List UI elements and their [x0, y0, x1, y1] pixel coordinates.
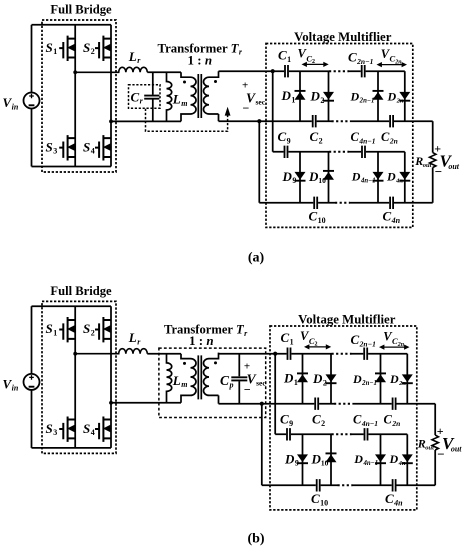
svg-text:S1: S1	[46, 40, 58, 56]
wire rail2 dotted (a)	[332, 120, 351, 122]
wire diode branch x328 top (a)	[328, 71, 330, 121]
node Vsec+ (a)	[271, 69, 275, 73]
capacitor C1 (a)	[285, 65, 288, 77]
capacitor C2 (a)	[313, 115, 316, 127]
wire rail3 (b)	[275, 433, 407, 435]
svg-text:D2n: D2n	[389, 372, 406, 387]
wire rail2 to Rout (b)	[434, 404, 436, 435]
wire diode branch x328 bottom (a)	[328, 152, 330, 203]
arrow VC2n (a)	[377, 62, 408, 67]
transistor S4 (a)	[95, 135, 111, 160]
diode D2 (a)	[323, 92, 334, 101]
capacitor C2n-1 (b)	[364, 348, 367, 360]
wire bridge left leg (a)	[74, 25, 76, 167]
svg-text:D9: D9	[282, 169, 297, 185]
transformer secondary dot (a)	[214, 80, 217, 83]
svg-text:−: −	[244, 383, 251, 397]
node bridge mid-right (b)	[109, 401, 113, 405]
transformer primary winding (b)	[181, 354, 196, 403]
svg-text:Vout: Vout	[440, 152, 460, 171]
source Vin (a)	[24, 93, 40, 109]
diode D2n-1 (a)	[373, 91, 384, 100]
voltage multiplier dashed box (a)	[266, 44, 413, 228]
wire diode branch x300 top (b)	[302, 354, 304, 404]
resistor Rout (a)	[430, 153, 436, 168]
capacitor C4n-1 (b)	[365, 428, 368, 440]
svg-text:C2n−1: C2n−1	[351, 332, 376, 348]
svg-text:VC2: VC2	[298, 47, 316, 65]
svg-text:−: −	[435, 164, 442, 179]
wire Lr to primary (a)	[147, 71, 181, 73]
diode D9 (a)	[295, 172, 306, 181]
diode D2n (a)	[399, 92, 410, 101]
capacitor Cr dashed box (a)	[129, 85, 161, 109]
svg-text:Cp: Cp	[220, 373, 234, 389]
svg-text:Rout: Rout	[417, 436, 434, 451]
svg-text:S2: S2	[83, 40, 95, 56]
svg-text:C2n: C2n	[381, 130, 398, 145]
capacitor Cr wire top (a)	[152, 72, 154, 95]
diode D2 (b)	[326, 374, 337, 383]
transformer secondary dot (b)	[214, 361, 217, 364]
wire rail1 dotted (b)	[332, 353, 352, 355]
capacitor C2n (a)	[390, 115, 393, 127]
svg-text:C1: C1	[278, 48, 291, 64]
transformer core (a)	[198, 74, 201, 118]
wire Rout to rail4 (b)	[434, 450, 436, 485]
wire diode branch x404 bottom (a)	[404, 152, 406, 203]
svg-text:C4n: C4n	[385, 491, 403, 507]
svg-text:C4n−1: C4n−1	[351, 130, 376, 145]
capacitor C10 (a)	[314, 197, 317, 209]
diode D4n (b)	[402, 454, 413, 463]
wire bridge left leg (b)	[74, 306, 76, 448]
svg-text:Full Bridge: Full Bridge	[50, 284, 112, 298]
voltage multiplier dashed box (b)	[270, 326, 417, 510]
wire rail3 (a)	[273, 151, 405, 153]
svg-text:D2n: D2n	[387, 90, 404, 105]
capacitor C9 (a)	[285, 146, 288, 158]
wire bridge bottom rail (b)	[32, 447, 112, 449]
svg-text:C4n: C4n	[383, 209, 401, 225]
capacitor C2n (b)	[393, 398, 396, 410]
wire rail1 dotted (a)	[329, 70, 349, 72]
capacitor C1 (b)	[288, 348, 291, 360]
svg-text:Lm: Lm	[172, 92, 188, 108]
diode D2n-1 (b)	[375, 373, 386, 382]
wire diode branch x300 top (a)	[299, 71, 301, 121]
wire bridge to Lr and inductor Lr coil (a)	[75, 67, 147, 72]
node Vsec- (a)	[257, 119, 261, 123]
wire diode branch x378 top (a)	[377, 71, 379, 121]
svg-text:D4n−1: D4n−1	[353, 452, 378, 467]
diode D4n-1 (a)	[373, 172, 384, 181]
svg-text:S1: S1	[46, 321, 58, 337]
capacitor C4n (b)	[393, 479, 396, 491]
transformer primary dot (b)	[183, 362, 186, 365]
wire bridge top rail (b)	[32, 305, 112, 307]
svg-text:C10: C10	[309, 209, 326, 225]
wire diode branch x328 top (b)	[330, 354, 332, 404]
svg-text:Vin: Vin	[3, 95, 19, 111]
wire rail3 dotted (b)	[332, 433, 352, 435]
wire secondary bottom lead (a)	[218, 114, 220, 121]
svg-text:−: −	[437, 447, 444, 462]
wire rail1 (b)	[219, 353, 408, 355]
svg-text:S3: S3	[46, 421, 58, 437]
svg-text:D4n: D4n	[386, 170, 403, 185]
wire diode branch x300 bottom (b)	[302, 434, 304, 485]
capacitor C10 (b)	[317, 479, 320, 491]
svg-text:S3: S3	[46, 139, 58, 155]
node bridge mid-right (a)	[109, 120, 113, 124]
wire Vin bottom (a)	[31, 109, 33, 167]
transformer secondary winding (a)	[204, 71, 219, 114]
svg-text:Lr: Lr	[128, 330, 141, 346]
wire Lr to primary (b)	[147, 353, 181, 355]
node Vsec- (b)	[260, 402, 264, 406]
transistor S3 (a)	[59, 135, 75, 160]
svg-text:C10: C10	[311, 491, 328, 507]
wire Vsec- to rail4 (a)	[258, 121, 260, 203]
wire rail1 (a)	[219, 70, 405, 72]
svg-text:Full Bridge: Full Bridge	[50, 3, 112, 17]
wire rail2 dotted (b)	[334, 403, 353, 405]
node bridge mid-left (a)	[73, 70, 77, 74]
svg-text:C1: C1	[281, 330, 294, 346]
svg-text:(a): (a)	[248, 250, 265, 265]
transistor S1 (a)	[59, 36, 75, 61]
diode D1 (a)	[295, 91, 306, 100]
svg-text:S4: S4	[83, 139, 95, 155]
svg-text:D1: D1	[283, 371, 298, 387]
capacitor C4n (a)	[390, 197, 393, 209]
diode D4n (a)	[399, 172, 410, 181]
transistor S3 (b)	[59, 417, 75, 442]
source Vin (b)	[24, 374, 40, 390]
wire bridge right leg (a)	[110, 25, 112, 167]
transistor S2 (a)	[95, 36, 111, 61]
capacitor C4n-1 (a)	[362, 146, 365, 158]
capacitor C2 (b)	[315, 398, 318, 410]
wire diode branch x404 top (a)	[404, 71, 406, 121]
wire rail2 (b)	[219, 403, 436, 405]
diode D10 (b)	[326, 453, 337, 462]
wire bridge top rail (a)	[32, 24, 112, 26]
transistor S2 (b)	[95, 317, 111, 342]
wire diode branch x404 top (b)	[406, 354, 408, 404]
dashed current arrow (a)	[225, 107, 231, 116]
capacitor Cr wire bottom (a)	[152, 100, 154, 122]
svg-text:VC2: VC2	[300, 329, 318, 347]
wire rail2 to Rout (a)	[432, 121, 434, 152]
wire rail4 (a)	[259, 202, 432, 204]
svg-text:C4n−1: C4n−1	[353, 413, 378, 428]
svg-text:Rout: Rout	[414, 154, 431, 169]
transformer core (b)	[198, 355, 201, 399]
transistor S1 (b)	[59, 317, 75, 342]
wire secondary bottom lead (b)	[218, 395, 220, 403]
wire Rout to rail4 (a)	[432, 168, 434, 203]
arrow VC2n (b)	[379, 345, 410, 350]
svg-text:S4: S4	[83, 421, 95, 437]
svg-text:Vin: Vin	[3, 376, 19, 392]
wire bridge to Lr and inductor Lr coil (b)	[75, 349, 147, 354]
wire rail4 (b)	[262, 484, 435, 486]
capacitor Cp wire top (b)	[238, 354, 240, 377]
wire rail4 dotted (b)	[338, 484, 353, 486]
wire rail2 (a)	[219, 120, 433, 122]
svg-text:D2: D2	[312, 371, 327, 387]
inductor Lm (a)	[167, 72, 172, 121]
dashed current path (a)	[146, 109, 228, 132]
wire primary bottom (b)	[111, 402, 181, 404]
svg-text:1 : n: 1 : n	[189, 333, 214, 348]
transistor S4 (b)	[95, 417, 111, 442]
capacitor Cp (b) plates	[231, 377, 247, 380]
wire primary bottom (a)	[111, 120, 181, 122]
svg-text:D2n−1: D2n−1	[350, 90, 375, 105]
capacitor Cp wire bottom (b)	[238, 381, 240, 404]
wire Vin bottom (b)	[31, 390, 33, 448]
arrow VC2 (a)	[302, 62, 329, 67]
diode D9 (b)	[297, 454, 308, 463]
transformer primary winding (a)	[181, 72, 196, 121]
diode D1 (b)	[297, 373, 308, 382]
wire diode branch x328 bottom (b)	[330, 434, 332, 485]
resistor Rout (b)	[432, 435, 438, 450]
svg-text:D9: D9	[284, 451, 299, 467]
full bridge dashed box (b)	[42, 301, 116, 453]
svg-text:C2: C2	[312, 412, 325, 428]
node Vsec+ (b)	[273, 352, 277, 356]
svg-text:−: −	[243, 101, 250, 115]
diode D10 (a)	[323, 171, 334, 180]
wire diode branch x300 bottom (a)	[299, 152, 301, 203]
diode D2n (b)	[402, 374, 413, 383]
wire rail3 dotted (a)	[329, 151, 349, 153]
capacitor C9 (b)	[287, 428, 290, 440]
svg-text:C2n: C2n	[384, 413, 401, 428]
diode D4n-1 (b)	[375, 454, 386, 463]
full bridge dashed box (a)	[42, 20, 116, 172]
arrow VC2 (b)	[304, 344, 331, 349]
svg-text:Cr: Cr	[131, 89, 144, 105]
svg-text:Voltage Multiflier: Voltage Multiflier	[294, 30, 392, 44]
svg-text:Voltage Multiflier: Voltage Multiflier	[298, 312, 396, 326]
svg-text:(b): (b)	[247, 531, 264, 546]
svg-text:D4n−1: D4n−1	[351, 170, 376, 185]
transformer primary dot (a)	[183, 81, 186, 84]
svg-text:C2n−1: C2n−1	[348, 50, 373, 66]
wire diode branch x404 bottom (b)	[406, 434, 408, 485]
svg-text:D1: D1	[281, 88, 296, 104]
wire Vsec+ to rail3 (b)	[274, 354, 276, 435]
node bridge mid-left (b)	[73, 352, 77, 356]
capacitor C2n-1 (a)	[362, 65, 365, 77]
svg-text:Lm: Lm	[172, 373, 188, 389]
svg-text:C2: C2	[310, 129, 323, 145]
svg-text:D2n−1: D2n−1	[352, 372, 377, 387]
svg-text:VC2n: VC2n	[381, 47, 403, 65]
transformer secondary winding (b)	[203, 353, 218, 396]
svg-text:C9: C9	[278, 129, 291, 145]
svg-text:D4n: D4n	[389, 452, 406, 467]
svg-text:VC2n: VC2n	[383, 329, 405, 347]
svg-text:Lr: Lr	[128, 49, 141, 65]
wire rail4 dotted (a)	[335, 202, 350, 204]
capacitor Cr (a) plates	[144, 96, 159, 99]
svg-text:Vout: Vout	[442, 434, 462, 453]
wire diode branch x378 bottom (a)	[377, 152, 379, 203]
transformer dashed box (b)	[159, 348, 266, 417]
wire Vin top (a)	[31, 25, 33, 93]
wire bridge right leg (b)	[110, 306, 112, 448]
svg-text:D2: D2	[310, 89, 325, 105]
wire bridge bottom rail (a)	[32, 166, 112, 168]
wire Vsec- to rail4 (b)	[261, 404, 263, 486]
wire diode branch x378 top (b)	[380, 354, 382, 404]
svg-text:1 : n: 1 : n	[188, 53, 213, 68]
wire Vin top (b)	[31, 306, 33, 374]
svg-text:C9: C9	[280, 412, 293, 428]
wire Vsec+ to rail3 (a)	[272, 71, 274, 152]
wire diode branch x378 bottom (b)	[380, 434, 382, 485]
svg-text:S2: S2	[83, 321, 95, 337]
inductor Lm (b)	[167, 354, 172, 403]
